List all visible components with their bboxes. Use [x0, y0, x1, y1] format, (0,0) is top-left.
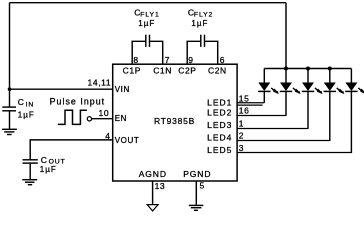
capacitor CFLY2 legs and plates: [187, 35, 218, 64]
svg-text:C2P: C2P: [178, 65, 196, 75]
capacitor CIN: [2, 107, 16, 129]
svg-text:1µF: 1µF: [191, 19, 208, 28]
op-amp U1 RT9385B IC body: [113, 64, 237, 181]
wire LED2 to pin 16: [237, 115, 286, 117]
LED D4: [324, 69, 345, 141]
capacitor COUT: [23, 160, 38, 180]
node junction VIN rail: [8, 87, 12, 91]
wire LED4 to pin 2: [237, 140, 330, 142]
wire top feed down to LED bus: [285, 3, 287, 69]
wire LED1 to pin 15: [237, 102, 264, 104]
svg-text:1: 1: [239, 118, 244, 128]
ground PGND: [189, 205, 204, 210]
svg-text:C2N: C2N: [208, 65, 227, 75]
svg-text:LED4: LED4: [207, 133, 232, 143]
wire VOUT: [30, 140, 112, 159]
node junction bus LED3: [306, 67, 310, 71]
svg-text:VIN: VIN: [115, 85, 130, 94]
wire EN from pulse circle: [92, 118, 113, 120]
svg-text:LED1: LED1: [207, 97, 232, 107]
svg-text:4: 4: [105, 131, 110, 141]
wire VIN: [10, 88, 113, 90]
svg-text:3: 3: [239, 143, 244, 153]
wire top rail: [10, 2, 287, 4]
svg-text:10: 10: [99, 108, 110, 118]
svg-text:7: 7: [165, 55, 170, 65]
svg-text:LED5: LED5: [207, 145, 232, 155]
ground AGND (open triangle): [147, 205, 158, 211]
svg-text:C: C: [18, 97, 25, 107]
pulse input waveform: [58, 110, 87, 124]
ground (COUT): [22, 180, 37, 185]
svg-text:15: 15: [239, 93, 250, 103]
svg-text:13: 13: [155, 181, 166, 191]
svg-text:PGND: PGND: [183, 169, 211, 179]
svg-text:1µF: 1µF: [40, 165, 57, 174]
pulse input terminal circle: [87, 117, 91, 121]
wire LED3 to pin 1: [237, 128, 308, 130]
svg-text:C: C: [41, 155, 48, 165]
svg-text:Pulse Input: Pulse Input: [50, 97, 106, 107]
wire PGND stub: [195, 181, 197, 205]
LED D5: [345, 69, 364, 154]
LED D2: [280, 69, 301, 116]
wire left rail: [9, 3, 11, 107]
svg-text:8: 8: [133, 55, 138, 65]
svg-text:VOUT: VOUT: [115, 136, 140, 145]
svg-text:IN: IN: [26, 101, 35, 108]
capacitor CFLY1 legs and plates: [132, 35, 163, 64]
svg-text:FLY2: FLY2: [194, 12, 213, 19]
wire LED1 double line: [237, 104, 263, 106]
LED D3: [302, 69, 323, 129]
svg-text:C1N: C1N: [153, 65, 172, 75]
svg-text:6: 6: [220, 55, 225, 65]
svg-text:FLY1: FLY1: [140, 12, 159, 19]
svg-text:AGND: AGND: [139, 169, 167, 179]
ground (CIN): [2, 129, 17, 134]
node junction bus LED4: [328, 67, 332, 71]
svg-text:LED3: LED3: [207, 120, 232, 130]
svg-text:2: 2: [239, 130, 244, 140]
svg-text:9: 9: [188, 55, 193, 65]
LED D1: [258, 69, 279, 103]
svg-text:16: 16: [239, 106, 250, 116]
svg-text:RT9385B: RT9385B: [154, 116, 195, 126]
wire LED anode bus: [264, 68, 351, 70]
wire LED5 to pin 3: [237, 152, 351, 154]
svg-text:C1P: C1P: [123, 65, 141, 75]
wire AGND stub: [152, 181, 154, 204]
svg-text:14,11: 14,11: [88, 77, 112, 87]
node junction bus/feed LED2: [284, 67, 288, 71]
svg-text:LED2: LED2: [207, 108, 232, 118]
svg-text:EN: EN: [115, 114, 127, 123]
svg-text:1µF: 1µF: [138, 19, 155, 28]
svg-text:1µF: 1µF: [18, 111, 35, 120]
svg-text:5: 5: [200, 180, 205, 190]
